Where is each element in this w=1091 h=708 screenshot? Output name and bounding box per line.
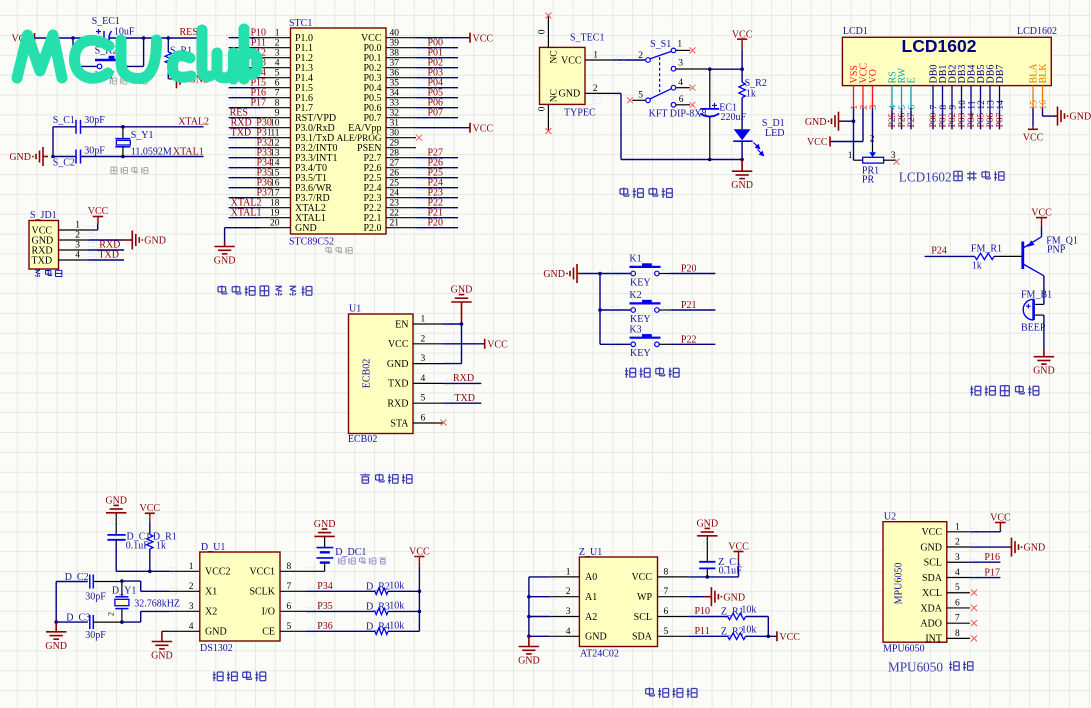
node junction VCC-R2 [740,67,744,71]
pin S_S1-6 with X [676,102,696,108]
svg-text:SDA: SDA [922,573,943,584]
svg-text:31: 31 [390,119,400,129]
svg-text:P27: P27 [907,112,917,127]
svg-text:2: 2 [859,105,869,110]
svg-text:S_JD1: S_JD1 [30,210,57,221]
svg-text:5: 5 [421,394,426,404]
IC D_U1 DS1302 body [169,542,306,654]
power port VCC (buzzer) [1031,207,1052,237]
pin S_S1-5 with X [627,97,646,103]
net labels P27-P20 [428,148,444,229]
svg-text:7: 7 [664,587,669,597]
logo MCUclub [17,29,258,79]
svg-text:P24: P24 [931,246,947,257]
svg-text:3: 3 [189,602,194,612]
wire+label TXD (U1 pin5) [443,393,481,404]
svg-text:4: 4 [888,105,898,110]
svg-text:10k: 10k [389,601,404,612]
node junction ZU1-A2 [527,615,531,619]
svg-text:P26: P26 [898,112,908,127]
resistor Z_R2 10k + P11 [689,624,777,639]
svg-text:10k: 10k [741,605,756,616]
svg-text:VCC: VCC [1023,133,1044,144]
svg-text:P04: P04 [967,112,977,127]
net labels P00-P07 [428,38,444,119]
wire key K3 right + label P22 [659,335,715,346]
capacitor S_EC1 10uF [92,16,135,45]
svg-text:GND: GND [731,180,753,191]
wire S_TEC1 pin1 to switch [585,59,645,61]
wire LCD VO to PR1 wiper [870,108,875,153]
svg-text:9: 9 [275,109,280,119]
wire buzzer to gnd [1043,315,1045,348]
svg-text:2: 2 [566,587,571,597]
ground GND (battery) [314,519,336,537]
title 存储模块 [646,687,697,697]
capacitor EC1 220uF [700,69,746,159]
text 按键复位 [110,78,148,85]
svg-text:NC: NC [550,50,560,63]
capacitor S_C2 30pF [53,146,106,169]
svg-text:GND: GND [9,152,31,163]
node junction DR2 [418,590,422,594]
svg-text:0: 0 [538,106,548,111]
wire LCD BLA to VCC [1023,108,1044,144]
svg-text:7: 7 [287,582,292,592]
wire key K2 left [600,309,631,311]
svg-text:4: 4 [955,568,960,578]
svg-text:LCD1602: LCD1602 [899,170,952,185]
svg-text:23: 23 [390,199,400,209]
svg-text:VCC: VCC [388,339,409,350]
title 时钟电路 [213,671,266,681]
ground GND (D_C1) [105,495,127,513]
svg-text:30pF: 30pF [84,146,105,157]
title MPU6050模块 [888,660,973,675]
svg-text:PR: PR [862,175,875,186]
svg-text:1: 1 [189,562,194,572]
svg-text:16: 16 [1039,100,1049,110]
node junction DY1-top [120,579,124,583]
node junction reset-2 [142,36,146,40]
svg-text:24: 24 [390,189,400,199]
svg-text:FM_B1: FM_B1 [1021,290,1052,301]
no-connect X (S_TEC1 top) [545,13,551,19]
no-connect X (STC1 pin30) [416,135,422,141]
power port VCC (S_JD1 pin1) [88,206,109,230]
svg-text:AT24C02: AT24C02 [580,649,619,660]
svg-text:GND: GND [151,651,173,662]
potentiometer PR1 [848,151,896,186]
svg-text:VCC: VCC [140,503,161,514]
svg-text:1: 1 [275,29,280,39]
svg-text:D_Y1: D_Y1 [112,585,136,596]
svg-text:K1: K1 [629,254,641,265]
svg-text:WP: WP [637,592,652,603]
svg-text:39: 39 [390,39,400,49]
ground GND (LCD) [805,112,854,131]
title 单片机最小系统 [218,285,312,295]
svg-text:1: 1 [955,522,960,532]
svg-text:P16: P16 [984,552,1000,563]
svg-text:VCC: VCC [88,206,109,217]
svg-text:P21: P21 [681,300,697,311]
node junction U1-pin1 [460,322,464,326]
svg-text:GND: GND [214,256,236,267]
title 电源电路 [620,188,672,199]
svg-text:U2: U2 [884,512,896,523]
svg-text:2: 2 [593,84,598,94]
svg-text:XTAL2: XTAL2 [178,116,209,127]
svg-text:GND: GND [518,656,540,667]
wire D_U1 pin3 to crystal [122,611,169,622]
svg-text:2: 2 [955,538,960,548]
switch S_S1 KFT DIP-8X8 [638,39,706,120]
svg-text:3: 3 [275,49,280,59]
svg-text:32.768kHZ: 32.768kHZ [134,598,180,609]
ground GND (keys) [543,264,600,283]
wire collector to buzzer [1035,276,1044,305]
svg-text:6: 6 [907,105,917,110]
resistor D_R3 10k + P35 [306,601,419,615]
svg-text:P35: P35 [317,601,333,612]
resistor D_R4 10k + P36 [306,621,419,635]
title 蓝牙模块 [361,474,413,484]
svg-text:5: 5 [638,91,643,101]
wire Z_U1 pin7 gnd [689,596,705,598]
svg-text:P2.0: P2.0 [363,223,381,234]
push button K3 KEY [629,324,660,359]
wire+power VCC (U1 pin2) [443,339,508,351]
wire D_C2-D_C3 left [55,582,57,623]
no-connect X (U2 pin5) [971,590,977,596]
resistor Z_R1 10k + P10 [689,605,769,637]
svg-text:20: 20 [270,219,280,229]
node junction crystal-bottom [121,155,125,159]
text 单片机 [326,247,352,254]
wire XTAL1 net [53,156,204,158]
power port VCC (pullups Z) [777,631,800,643]
svg-text:7: 7 [955,614,960,624]
svg-text:3: 3 [678,59,683,69]
no-connect X (U2 pin7) [971,620,977,626]
svg-text:19: 19 [270,209,280,219]
node junction DC-gnd [54,620,58,624]
svg-text:4: 4 [275,59,280,69]
svg-text:3: 3 [421,354,426,364]
svg-text:VCC: VCC [473,33,494,44]
svg-text:GND: GND [1070,112,1091,123]
svg-text:A0: A0 [585,572,597,583]
pin PR1-3 with X [884,159,900,165]
wire U2 pin2 gnd [970,546,1009,548]
wire U1 pin1-pin3 [443,324,462,364]
wire key K1 left [600,273,631,275]
net label XTAL1 (pin19) [231,207,262,218]
svg-text:P20: P20 [428,218,444,229]
wire S_S1 pin3 to VCC node [676,68,742,70]
svg-text:28: 28 [390,149,400,159]
svg-text:7: 7 [275,89,280,99]
svg-text:30pF: 30pF [85,630,106,641]
svg-text:X1: X1 [205,587,217,598]
svg-text:P25: P25 [888,112,898,127]
wire key K3 left [600,343,631,345]
svg-text:6: 6 [679,95,684,105]
svg-text:VCC: VCC [990,512,1011,523]
net label TXD P31 (pin11) [231,128,272,139]
svg-text:GND: GND [723,592,745,603]
svg-text:S_Y1: S_Y1 [131,130,154,141]
ground GND (Z_C1) [696,518,718,536]
svg-text:DS1302: DS1302 [200,643,233,654]
svg-text:13: 13 [986,100,996,110]
wire+label P24 [925,246,975,257]
svg-text:6: 6 [955,598,960,608]
ground GND (D_U1 pin4) [151,631,173,661]
node junction DY1-bottom [120,620,124,624]
svg-text:CE: CE [262,627,275,638]
svg-text:0: 0 [538,29,548,34]
power port VCC (reset) [11,33,34,45]
IC STC1 STC89C52 body [270,18,399,248]
title 蜂鸣器电路 [970,385,1039,396]
svg-text:4: 4 [678,78,683,88]
svg-text:6: 6 [287,602,292,612]
svg-text:S_TEC1: S_TEC1 [570,33,604,44]
erc marks [88,34,1045,639]
svg-text:6: 6 [664,607,669,617]
net labels STC1 left P10-P17 [250,28,266,109]
svg-text:PNP: PNP [1047,245,1066,256]
power port VCC (LCD) [807,137,830,149]
svg-text:0.1uF: 0.1uF [126,541,150,552]
pin 0 top (S_TEC1) [538,16,549,47]
LCD pin numbers [850,100,1049,110]
svg-text:GND: GND [45,641,67,652]
ground GND (crystal D) [45,622,67,652]
svg-text:21: 21 [390,219,400,229]
svg-text:0.1uF: 0.1uF [719,566,743,577]
svg-text:14: 14 [996,100,1006,110]
svg-text:DB7: DB7 [995,65,1006,84]
svg-text:LCD1: LCD1 [843,26,868,37]
svg-text:2: 2 [421,334,426,344]
svg-text:3: 3 [566,607,571,617]
svg-text:8: 8 [955,629,960,639]
wire+power VCC (STC1 pin40) [416,33,493,45]
svg-text:2: 2 [107,612,116,616]
svg-text:ALE/PROG: ALE/PROG [337,133,382,143]
node junction EC1-top [708,67,712,71]
wire clock pullup rail [418,567,420,631]
svg-text:MPU6050: MPU6050 [883,644,925,655]
svg-text:A1: A1 [585,592,597,603]
node junction crystal-gnd [51,155,55,159]
node junction ZU1-A1 [527,595,531,599]
no-connect X (U1 pin6) [441,420,447,426]
capacitor S_C1 30pF [53,115,106,134]
svg-text:LCD1602: LCD1602 [1017,26,1057,37]
wires STC1 left nets [229,38,261,218]
svg-text:1: 1 [593,51,598,61]
node junction ZC1 [706,575,710,579]
svg-text:36: 36 [390,69,400,79]
svg-text:VCC: VCC [473,123,494,134]
ground GND (buzzer) [1033,348,1055,376]
svg-text:GND: GND [295,223,317,234]
svg-text:KEY: KEY [630,277,651,288]
wire reset button left [73,38,97,66]
wire XTAL2 net [53,126,204,128]
node junction reset-1 [71,36,75,40]
wire crystal left [52,127,54,157]
net labels P32-P37 [256,138,272,199]
svg-text:VCC: VCC [779,632,800,643]
wire D_U1 pin1 node [150,570,169,572]
svg-text:26: 26 [390,169,400,179]
svg-text:VO: VO [868,69,879,83]
svg-text:RXD: RXD [387,399,408,410]
svg-text:S_C2: S_C2 [53,158,75,169]
svg-text:K3: K3 [629,324,641,335]
node junction EC1-bottom [708,158,712,162]
svg-text:1: 1 [421,315,426,325]
net label XTAL1 [173,146,204,157]
svg-text:S_C1: S_C1 [53,115,75,126]
node junction ZR2-VCC [767,635,771,639]
svg-text:P17: P17 [984,567,1000,578]
svg-text:P05: P05 [977,112,987,127]
wire S_TEC1 pin2 to bottom rail [585,93,742,159]
ground GND (S_JD1) [123,231,166,250]
svg-text:8: 8 [939,105,949,110]
svg-text:BEEP: BEEP [1021,323,1046,334]
ground GND (reset) [168,69,210,88]
svg-text:P22: P22 [681,335,697,346]
wire Z_U1 address common [529,577,550,636]
wire STC1 pin20 to ground [225,228,261,241]
svg-text:STC89C52: STC89C52 [289,237,334,248]
svg-text:3: 3 [869,105,879,110]
resistor D_R1 1k [147,524,177,572]
wire LCD BLK to gnd [1043,108,1056,116]
svg-text:2: 2 [275,39,280,49]
wire PR1 pin1 [854,121,863,160]
svg-text:VCC: VCC [1031,207,1052,218]
connector S_JD1 [29,210,98,269]
svg-text:30pF: 30pF [84,115,105,126]
LCD pin names [849,63,1049,84]
svg-text:P00: P00 [929,112,939,127]
svg-text:TYPEC: TYPEC [564,108,596,119]
STC1 pins left [261,38,291,228]
capacitor D_C2 30pF [56,572,122,602]
capacitor D_C3 30pF [56,613,122,642]
svg-text:11.0592M: 11.0592M [131,147,172,158]
ground GND (power circuit) [731,160,753,192]
svg-text:4: 4 [566,627,571,637]
svg-text:30: 30 [390,129,400,139]
push button K1 KEY [629,254,660,289]
svg-text:VCC: VCC [487,339,508,350]
svg-text:22: 22 [390,209,400,219]
crystal S_Y1 11.0592M [115,127,172,158]
svg-text:FM_R1: FM_R1 [971,243,1002,254]
svg-text:GND: GND [543,269,565,280]
wires STC1 right P0 bus [416,48,458,118]
wire+label P17 (U2 pin4) [970,567,1001,578]
svg-text:38: 38 [390,49,400,59]
svg-text:KFT DIP-8X8: KFT DIP-8X8 [649,109,707,120]
resistor S_R2 1k [739,69,767,129]
svg-text:3: 3 [955,553,960,563]
svg-text:RXD: RXD [453,373,474,384]
svg-text:27: 27 [390,159,400,169]
svg-text:37: 37 [390,59,400,69]
svg-text:8: 8 [275,99,280,109]
svg-text:5: 5 [664,627,669,637]
svg-text:VCC: VCC [561,55,582,66]
svg-text:4: 4 [75,251,80,261]
ground GND (Z_U1 WP) [704,587,745,606]
net label RXD P30 (pin10) [231,118,272,129]
svg-text:GND: GND [387,359,409,370]
svg-text:LCD1602: LCD1602 [902,36,977,56]
svg-text:S_EC1: S_EC1 [92,16,120,27]
svg-text:A2: A2 [585,612,597,623]
svg-text:7: 7 [929,105,939,110]
svg-text:VCC2: VCC2 [205,567,231,578]
STC1 pins right [386,38,416,228]
IC U1 ECB02 body [348,304,443,446]
title 按键电路 [625,367,679,378]
svg-text:SDA: SDA [632,632,653,643]
ground GND (Z_U1) [518,636,540,666]
node junction DR3 [418,610,422,614]
LCD pin stubs [854,86,1043,108]
transistor FM_Q1 PNP [1023,236,1078,276]
svg-text:I/O: I/O [262,607,275,618]
svg-text:1k: 1k [746,89,756,100]
net label RES (reset) [180,27,198,38]
ground GND (U2) [1009,538,1045,557]
svg-text:18: 18 [270,199,280,209]
net label RES (STC1 pin9) [230,108,248,119]
IC U2 MPU6050 body [883,512,970,655]
svg-text:GND: GND [1033,366,1055,377]
svg-text:LED: LED [765,128,784,139]
svg-text:TXD: TXD [32,255,53,266]
svg-text:29: 29 [390,139,400,149]
svg-text:GND: GND [805,117,827,128]
no-connect X (U2 pin8) [971,635,977,641]
power port VCC (Z_U1) [728,542,749,562]
wire D_U1 pin2 to crystal [122,581,169,591]
pin 0 bottom (S_TEC1) [538,104,549,130]
svg-text:ADO: ADO [920,618,942,629]
svg-text:P34: P34 [317,581,333,592]
svg-text:ECB02: ECB02 [348,434,377,445]
svg-text:6: 6 [275,79,280,89]
svg-text:TXD: TXD [388,379,409,390]
svg-text:2: 2 [189,582,194,592]
ground GND (crystal) [9,147,48,166]
wire LCD VSS to gnd [853,108,855,122]
svg-text:2: 2 [870,134,875,144]
svg-text:VCC: VCC [807,137,828,148]
svg-text:1: 1 [75,221,80,231]
